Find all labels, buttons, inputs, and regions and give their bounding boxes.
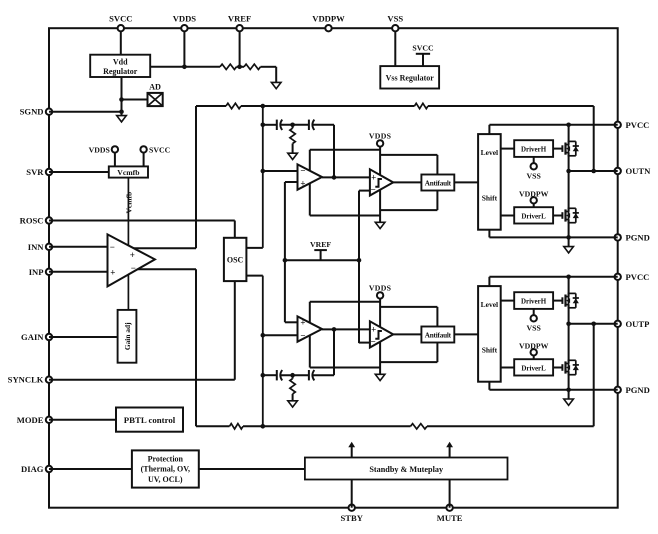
wire VDDS vertical ch1 (379, 146, 381, 222)
wire PVCC row ch1 (488, 125, 490, 134)
svg-text:Regulator: Regulator (103, 67, 138, 76)
capacitor C1a (276, 120, 278, 130)
wire feedback row top (to OUTN) (196, 105, 226, 107)
wire comparator ref ch1 (359, 190, 370, 192)
integrator A1 (298, 164, 323, 189)
node (119, 97, 124, 102)
wire input amp lower output (136, 268, 196, 270)
svg-text:Shift: Shift (482, 346, 498, 355)
arrow up 2 (449, 446, 451, 458)
svg-text:GAIN: GAIN (21, 332, 44, 342)
wire Vdd Regulator output row (150, 66, 220, 68)
wire INP (49, 271, 108, 273)
wire GAIN (49, 336, 118, 338)
Antifault block ch1 (421, 175, 454, 191)
wire Antifault to Level Shift (454, 181, 478, 183)
wire (281, 374, 309, 376)
svg-text:−: − (371, 185, 376, 195)
wire (313, 124, 334, 126)
wire MUTE (449, 480, 451, 508)
wire PGND row ch1 (488, 230, 490, 238)
svg-text:PBTL control: PBTL control (124, 415, 176, 425)
arrow up 1 (351, 446, 353, 458)
svg-text:OSC: OSC (227, 255, 244, 264)
wire (281, 124, 309, 126)
ground (288, 153, 298, 159)
wire (427, 425, 594, 427)
wire input amp upper output (128, 247, 196, 249)
wire SGND (49, 111, 122, 113)
VSS terminal ch2 (533, 309, 535, 315)
wire PVCC row ch2 (488, 277, 490, 286)
wire integrator output (322, 176, 370, 178)
svg-text:PVCC: PVCC (626, 272, 650, 282)
capacitor C2b (308, 370, 310, 380)
low-side FET Q2L (561, 364, 563, 371)
svg-text:VREF: VREF (310, 240, 331, 249)
svg-text:INN: INN (28, 242, 45, 252)
svg-text:MUTE: MUTE (437, 513, 463, 523)
Protection block (132, 450, 199, 487)
wire loop around integrator ch1 (310, 149, 380, 151)
svg-text:AD: AD (149, 83, 161, 92)
wire Antifault to Level Shift (454, 333, 478, 335)
wire loop around comparator ch1 (381, 154, 437, 156)
resistor R-in2 (230, 424, 244, 429)
PBTL control block (116, 408, 183, 432)
DriverL block ch1 (514, 207, 553, 223)
wire drain high-side (568, 277, 570, 297)
wire gate L (553, 215, 562, 217)
wire (501, 300, 515, 302)
ground (375, 374, 385, 380)
ground (117, 116, 127, 122)
node VDDS junction (182, 65, 187, 70)
comparator K1 (370, 169, 393, 195)
svg-text:−: − (300, 166, 305, 176)
chip border (49, 28, 618, 508)
wire OUT row ch1 (569, 170, 618, 172)
wire (501, 215, 515, 217)
ground (564, 247, 574, 253)
svg-text:Vcmfb: Vcmfb (125, 192, 134, 214)
svg-text:VDDS: VDDS (89, 145, 110, 154)
svg-text:Shift: Shift (482, 194, 498, 203)
svg-text:VSS: VSS (387, 14, 403, 24)
node (119, 109, 124, 114)
resistor R-in1 (226, 103, 241, 108)
wire gate H (553, 300, 562, 302)
wire loop around integrator ch2 (310, 301, 380, 303)
VSS terminal ch1 (533, 157, 535, 163)
svg-text:+: + (371, 173, 376, 183)
wire (501, 367, 515, 369)
wire caps row ch1 (263, 124, 277, 126)
ground (271, 82, 281, 88)
wire (243, 425, 411, 427)
wire mid node (568, 305, 570, 364)
wire DIAG (49, 468, 132, 470)
wire comparator output (393, 333, 421, 335)
OSC block (224, 238, 247, 281)
wire (241, 105, 415, 107)
svg-text:DIAG: DIAG (21, 464, 44, 474)
svg-text:VREF: VREF (228, 14, 251, 24)
svg-text:VDDS: VDDS (173, 14, 197, 24)
wire feedback row bottom (to OUTP) (196, 425, 230, 427)
wire drain high-side (568, 125, 570, 145)
svg-text:SYNCLK: SYNCLK (8, 375, 44, 385)
wire SVR to Vcmfb (49, 171, 109, 173)
svg-text:OUTN: OUTN (626, 166, 652, 176)
wire (501, 148, 515, 150)
high-side FET Q2H (561, 297, 563, 304)
wire comparator ref ch2 (359, 342, 370, 344)
svg-text:Protection: Protection (148, 455, 184, 464)
high-side FET Q1H (561, 145, 563, 152)
wire STBY (351, 480, 353, 508)
wire SYNCLK to OSC (49, 379, 235, 381)
svg-text:+: + (300, 178, 305, 188)
wire loop around comparator ch2 (381, 306, 437, 308)
wire Vcmfb output (to input amp and Gain adj) (127, 178, 129, 310)
Level Shift block ch1 (478, 134, 501, 230)
svg-text:−: − (371, 337, 376, 347)
svg-text:DriverL: DriverL (521, 212, 546, 220)
Antifault block ch2 (421, 327, 454, 343)
ground (375, 222, 385, 228)
DriverL block ch2 (514, 359, 553, 375)
resistor R-fb2 (411, 424, 428, 429)
wire VSS vertical (394, 31, 396, 66)
wire gate H (553, 148, 562, 150)
resistor R-fb1 (415, 103, 429, 108)
svg-text:+: + (300, 318, 305, 328)
wire to integrator ch2 (263, 334, 298, 336)
svg-text:(Thermal, OV,: (Thermal, OV, (141, 465, 190, 474)
wire (428, 105, 594, 107)
wire caps row ch2 (263, 374, 277, 376)
svg-text:VDDPW: VDDPW (312, 14, 345, 24)
DriverH block ch2 (514, 292, 553, 309)
wire (313, 374, 334, 376)
wire INN (49, 246, 108, 248)
Vdd Regulator U1 (90, 55, 150, 77)
wire OUT row ch2 (569, 323, 618, 325)
svg-text:−: − (131, 263, 136, 273)
wire Protection to Standby (199, 468, 305, 470)
capacitor C1b (308, 120, 310, 130)
Level Shift block ch2 (478, 286, 501, 382)
wire to integrator ch1 (263, 170, 298, 172)
wire (237, 66, 245, 68)
svg-text:SVR: SVR (26, 167, 44, 177)
svg-text:UV, OCL): UV, OCL) (148, 475, 183, 484)
svg-text:SVCC: SVCC (109, 14, 132, 24)
svg-text:PGND: PGND (626, 385, 650, 395)
wire PGND row ch2 (488, 382, 490, 390)
ground (288, 401, 298, 407)
wire comparator output (393, 181, 421, 183)
svg-text:SVCC: SVCC (149, 145, 171, 154)
svg-text:Level: Level (481, 148, 499, 157)
wire SVCC to Vdd Regulator (120, 31, 122, 55)
DriverH block ch1 (514, 140, 553, 157)
svg-text:INP: INP (29, 267, 44, 277)
svg-text:−: − (300, 330, 305, 340)
wire Vdd Regulator to ground (121, 77, 123, 116)
wire VDDS vertical (183, 31, 185, 67)
wire VREF row (284, 182, 286, 322)
svg-text:Vcmfb: Vcmfb (117, 168, 139, 177)
svg-text:Vss Regulator: Vss Regulator (386, 74, 435, 83)
wire ROSC to OSC (49, 220, 235, 222)
wire to AD (122, 99, 148, 101)
svg-text:ROSC: ROSC (20, 216, 44, 226)
svg-text:Level: Level (481, 300, 499, 309)
resistor R-vref2 (244, 64, 261, 69)
svg-text:SVCC: SVCC (412, 44, 434, 53)
node VREF junction (237, 65, 242, 70)
wire gate L (553, 367, 562, 369)
wire integrator output (322, 328, 370, 330)
ground (564, 399, 574, 405)
resistor R1mid (290, 123, 295, 128)
svg-text:Antifault: Antifault (425, 179, 452, 187)
svg-text:DriverH: DriverH (521, 146, 547, 154)
node bus ch2 (246, 275, 262, 277)
svg-text:PGND: PGND (626, 232, 650, 242)
svg-text:Antifault: Antifault (425, 331, 452, 339)
svg-text:DriverH: DriverH (521, 298, 547, 306)
wire VREF vertical (239, 31, 241, 67)
Vcmfb block (109, 166, 148, 177)
svg-text:VSS: VSS (527, 172, 541, 181)
wire mid node (568, 153, 570, 212)
svg-text:VSS: VSS (527, 324, 541, 333)
wire to ground (261, 66, 277, 68)
wire VDDS vertical ch2 (379, 298, 381, 374)
capacitor C2a (276, 370, 278, 380)
svg-text:Vdd: Vdd (113, 58, 128, 67)
svg-text:OUTP: OUTP (626, 319, 650, 329)
input amplifier U3 (108, 234, 155, 286)
svg-text:PVCC: PVCC (626, 120, 650, 130)
svg-text:Standby & Muteplay: Standby & Muteplay (369, 465, 444, 474)
Vss Regulator U2 (380, 66, 439, 88)
integrator A2 (298, 316, 323, 341)
comparator K2 (370, 321, 393, 347)
svg-text:SGND: SGND (20, 107, 44, 117)
svg-text:+: + (130, 250, 135, 260)
low-side FET Q1L (561, 212, 563, 219)
resistor R-vref1 (220, 64, 237, 69)
svg-text:−: − (110, 242, 115, 252)
svg-text:MODE: MODE (17, 415, 44, 425)
svg-text:+: + (110, 268, 115, 278)
resistor R2mid (290, 373, 295, 378)
node bus ch1 (262, 106, 264, 248)
Standby &amp; Muteplay block (305, 458, 508, 480)
svg-text:STBY: STBY (340, 513, 363, 523)
svg-text:+: + (371, 325, 376, 335)
wire MODE (49, 419, 116, 421)
svg-text:DriverL: DriverL (521, 364, 546, 372)
svg-text:Gain adj: Gain adj (123, 322, 132, 350)
Gain adj block (118, 310, 137, 363)
